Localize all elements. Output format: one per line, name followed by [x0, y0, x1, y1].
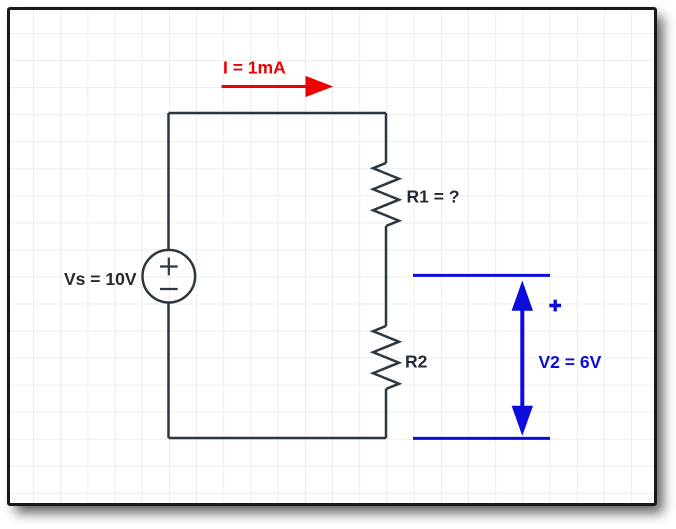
wire bottom: [169, 437, 387, 440]
svg-text:R2: R2: [405, 352, 428, 372]
wire right upper: [385, 113, 388, 163]
svg-text:Vs = 10V: Vs = 10V: [64, 269, 137, 289]
wire left lower: [167, 304, 170, 439]
wire left upper: [167, 113, 170, 250]
wire right lower: [385, 389, 388, 438]
resistor R1: [373, 163, 399, 226]
wire right middle: [385, 226, 388, 326]
plus polarity mark: [549, 300, 561, 312]
current arrow I: [222, 85, 307, 88]
resistor R2: [373, 326, 399, 389]
svg-text:V2 = 6V: V2 = 6V: [539, 352, 602, 372]
V2 measurement arrow: [520, 306, 524, 410]
voltage source Vs: [143, 250, 196, 303]
node line bottom (blue): [413, 437, 550, 440]
svg-text:R1 = ?: R1 = ?: [407, 187, 460, 207]
wire top: [169, 112, 387, 115]
Vs minus sign: [160, 288, 178, 290]
svg-text:I = 1mA: I = 1mA: [223, 58, 286, 78]
node line top (blue): [413, 274, 550, 277]
Vs plus sign: [160, 258, 178, 276]
